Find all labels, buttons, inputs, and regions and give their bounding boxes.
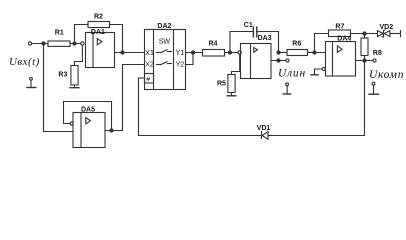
svg-text:R7: R7 xyxy=(335,23,344,30)
op-amp DA1 inverting input circle xyxy=(81,42,84,45)
wire DA3 output xyxy=(271,60,286,62)
node I (comparator input junction) xyxy=(313,51,316,54)
node K (DA4 output junction) xyxy=(363,59,366,62)
node E (Y merge) xyxy=(191,51,194,54)
ground under R5 xyxy=(227,93,236,96)
input terminal xyxy=(28,42,31,45)
wire node I up to R7 xyxy=(315,34,329,53)
resistor R7 xyxy=(329,30,351,37)
svg-text:R4: R4 xyxy=(209,41,218,48)
node F (integrator summing junction) xyxy=(228,51,231,54)
svg-text:Uлин: Uлин xyxy=(278,68,306,80)
wire node A down to DA5 noninverting input xyxy=(44,44,74,132)
ground under R3 xyxy=(70,85,79,88)
control pin box # xyxy=(145,74,154,84)
wire input to R1 xyxy=(32,43,48,45)
diode VD1 xyxy=(257,125,271,139)
svg-text:#: # xyxy=(146,77,150,84)
node A (input junction) xyxy=(42,42,45,45)
terminal Ukomp xyxy=(373,59,376,62)
terminal Ulin xyxy=(286,59,289,62)
op-amp DA1 xyxy=(86,29,115,68)
op-amp DA5 xyxy=(73,107,105,148)
svg-text:DA5: DA5 xyxy=(81,107,95,114)
DA4 lower input circle xyxy=(322,67,325,70)
svg-text:VD1: VD1 xyxy=(257,125,271,132)
op-amp DA4 xyxy=(326,36,356,76)
wire R2 to DA1 output xyxy=(110,25,123,53)
svg-text:DA1: DA1 xyxy=(91,29,105,36)
resistor R2 xyxy=(88,22,110,28)
svg-text:Y2: Y2 xyxy=(176,62,185,69)
wire Y1 to R4 xyxy=(186,52,203,54)
wire R4 to DA3 xyxy=(225,52,238,54)
wire node B up to R2 xyxy=(75,25,89,44)
wire # pin to bottom feedback xyxy=(139,78,145,136)
svg-text:R5: R5 xyxy=(217,80,226,87)
wire DA4 output xyxy=(356,60,373,62)
resistor R4 xyxy=(203,50,225,57)
svg-text:Y1: Y1 xyxy=(176,50,185,57)
node G (C1 return / R6 tap) xyxy=(277,51,280,54)
svg-text:Uкомп: Uкомп xyxy=(369,69,404,81)
bottom feedback wire left segment xyxy=(139,135,262,137)
svg-text:X2: X2 xyxy=(145,62,154,69)
potential symbol Ukomp xyxy=(369,82,379,94)
wire DA5 output up to X2 xyxy=(123,65,145,131)
switch contact row 2 xyxy=(157,62,172,65)
wire R1 to DA1 xyxy=(70,43,80,45)
node D (DA5 output junction) xyxy=(110,129,113,132)
node H (DA3 output junction) xyxy=(277,59,280,62)
wire C1 to output node xyxy=(257,32,279,53)
wire R7 to node J xyxy=(351,33,378,35)
wire R8 to DA4 output xyxy=(364,56,366,61)
svg-text:R8: R8 xyxy=(373,50,382,57)
svg-text:R2: R2 xyxy=(94,13,103,20)
svg-text:DA4: DA4 xyxy=(337,36,351,43)
wire inverting input down to R5 xyxy=(232,54,240,74)
svg-text:DA3: DA3 xyxy=(258,35,272,42)
wire inverting input down to R3 xyxy=(75,45,83,65)
wire node G to R6 xyxy=(279,52,288,54)
svg-text:X1: X1 xyxy=(145,50,154,57)
svg-text:Uвх(t): Uвх(t) xyxy=(9,56,40,68)
node B (R2 junction) xyxy=(73,42,76,45)
node J (R7/R8/VD2 junction) xyxy=(363,32,366,35)
wire DA1 output to X1 xyxy=(115,52,145,54)
wire node F up to C1 xyxy=(230,32,253,53)
node C (feedback junction) xyxy=(121,51,124,54)
resistor R5 xyxy=(228,75,235,93)
ground at DA4 input xyxy=(311,74,318,76)
wire R6 to DA4 xyxy=(308,52,326,54)
capacitor C1 xyxy=(244,22,257,37)
potential symbol Ulin xyxy=(283,83,290,94)
svg-text:R1: R1 xyxy=(55,30,64,37)
resistor R8 xyxy=(361,38,368,56)
switch DA2 xyxy=(145,23,186,89)
switch contact row 1 xyxy=(157,50,172,53)
wire Y2 merge xyxy=(186,53,194,65)
zener diode VD2 xyxy=(378,24,401,37)
resistor R3 xyxy=(71,66,78,86)
svg-text:C1: C1 xyxy=(244,22,253,29)
op-amp DA3 inverting input circle xyxy=(238,51,241,54)
resistor R1 xyxy=(48,41,70,46)
DA5 feedback wire xyxy=(64,102,112,131)
svg-text:VD2: VD2 xyxy=(380,24,394,31)
svg-text:R3: R3 xyxy=(58,71,67,78)
wire node J down to R8 xyxy=(364,34,366,39)
DA5 inverting input circle xyxy=(70,122,73,125)
svg-text:SW: SW xyxy=(159,38,171,45)
svg-text:DA2: DA2 xyxy=(157,23,171,30)
svg-text:R6: R6 xyxy=(292,40,301,47)
op-amp DA3 xyxy=(241,35,272,78)
potential symbol at input xyxy=(27,77,36,87)
bottom feedback wire right segment xyxy=(268,61,365,136)
DA5 output wire xyxy=(105,130,123,132)
resistor R6 xyxy=(287,50,308,56)
wire DA4 lower input to ground xyxy=(315,69,323,75)
